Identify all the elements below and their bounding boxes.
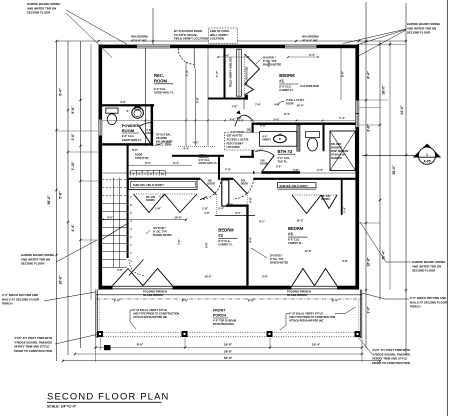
wall hall top xyxy=(172,155,224,157)
dimension line left vertical x75 xyxy=(80,41,82,348)
porch rail line xyxy=(96,294,362,296)
svg-text:LOCATION: LOCATION xyxy=(210,37,224,41)
svg-text:5′-8″: 5′-8″ xyxy=(262,275,269,279)
svg-text:8′-0″: 8′-0″ xyxy=(341,70,345,77)
bottom ticks xyxy=(62,346,381,361)
dim text 9'-8 right xyxy=(367,124,371,132)
witness line top x153 xyxy=(152,8,154,45)
left branch y152 xyxy=(68,151,98,153)
svg-text:FIELD VERIFY SHELVES: FIELD VERIFY SHELVES xyxy=(229,57,233,87)
interior vertical dimension texts xyxy=(177,60,347,248)
bottom dim line y354 xyxy=(75,353,362,355)
svg-text:4′-0″: 4′-0″ xyxy=(238,120,244,123)
note window top-left xyxy=(131,35,148,43)
svg-text:3/4 STUD *: 3/4 STUD * xyxy=(270,255,283,258)
note stud bedrm2 xyxy=(146,227,172,237)
svg-text:8′-2″: 8′-2″ xyxy=(132,148,139,152)
dimension ticks top xyxy=(55,40,407,42)
dimension ticks right xyxy=(365,99,407,291)
dim text 4'-0 closet xyxy=(236,116,242,120)
svg-text:BTH #2: BTH #2 xyxy=(278,149,293,154)
wall bath bottom xyxy=(240,156,254,158)
wall closet bedrm3 right xyxy=(341,180,343,215)
dim line hall y173 xyxy=(103,172,356,174)
note hardie right-mid xyxy=(360,222,446,273)
svg-text:5′-8″: 5′-8″ xyxy=(293,168,300,172)
svg-text:CARPET FL.: CARPET FL. xyxy=(288,242,303,245)
svg-text:10.8 VERS RCM: 10.8 VERS RCM xyxy=(300,85,319,88)
bottom dim line y360.7 xyxy=(63,360,380,362)
svg-text:SHELVES, FIELD VERIFY: SHELVES, FIELD VERIFY xyxy=(280,185,309,188)
porch deck dotted lines xyxy=(96,333,362,337)
dim line below doors xyxy=(204,195,255,216)
dim text 5'-8 b xyxy=(195,96,199,103)
svg-text:FOLDING FRENCH: FOLDING FRENCH xyxy=(143,290,167,294)
note post trim left xyxy=(14,334,99,353)
svg-text:DOOR: DOOR xyxy=(286,103,294,106)
svg-text:CARPET FL.: CARPET FL. xyxy=(218,244,233,247)
attic access dashed box xyxy=(225,133,263,151)
dimension line right vertical x366 xyxy=(365,2,367,348)
svg-text:14′-2″: 14′-2″ xyxy=(296,219,304,223)
half wall line x145.5 xyxy=(145,48,147,146)
svg-text:6′-1″: 6′-1″ xyxy=(259,220,266,224)
note hardie top-right xyxy=(343,22,441,56)
dim text 44'-0 right xyxy=(400,105,404,115)
svg-text:38′-8″: 38′-8″ xyxy=(224,349,233,353)
svg-text:ROOM: ROOM xyxy=(122,128,135,133)
svg-text:4′-6″: 4′-6″ xyxy=(120,100,127,104)
svg-text:ACCESS: LOCATE: ACCESS: LOCATE xyxy=(227,138,249,141)
dim text 5'-8 left xyxy=(59,191,63,199)
door attic access (dashed arc) xyxy=(178,48,194,68)
dim line bedrm2 y219.7 xyxy=(101,216,187,221)
powder sink xyxy=(132,107,144,119)
svg-text:8′-4″: 8′-4″ xyxy=(145,161,152,165)
svg-text:GET IN ATTIC: GET IN ATTIC xyxy=(227,135,243,138)
svg-text:CARPET FL.: CARPET FL. xyxy=(279,89,294,92)
svg-text:4′-6″: 4′-6″ xyxy=(274,103,281,107)
svg-text:9′-8″: 9′-8″ xyxy=(205,241,209,248)
exterior wall right xyxy=(355,45,359,290)
svg-text:5′-4″: 5′-4″ xyxy=(223,54,230,58)
closet hall bifold doors xyxy=(134,194,198,213)
stairs treads xyxy=(102,180,127,268)
svg-text:2′-10″: 2′-10″ xyxy=(71,161,75,170)
svg-text:SECOND FLOOR: SECOND FLOOR xyxy=(412,269,436,273)
svg-text:6″ AT BALAL VERIFY STYLE: 6″ AT BALAL VERIFY STYLE xyxy=(289,313,323,316)
exterior wall bottom xyxy=(99,286,360,290)
door bath double xyxy=(235,115,254,126)
door bedrm1 entry xyxy=(237,100,245,114)
door hall to bedrm3 xyxy=(233,179,254,200)
svg-text:9′-0″ CLG.: 9′-0″ CLG. xyxy=(278,156,291,160)
svg-text:5′-0″: 5′-0″ xyxy=(276,166,282,169)
porch post A xyxy=(97,331,103,337)
dim text 4'-4 left xyxy=(71,224,75,231)
svg-text:ROOM: ROOM xyxy=(154,78,168,83)
label hall xyxy=(199,154,219,166)
svg-text:4′-4″: 4′-4″ xyxy=(183,147,190,151)
svg-text:1′-4″: 1′-4″ xyxy=(343,206,347,213)
wall stairs right vertical xyxy=(127,145,129,258)
right branch y107 xyxy=(359,107,380,109)
wall closet1 bottom xyxy=(208,98,245,100)
bottom dim text 18'-8 xyxy=(224,343,233,347)
dim text 2'-10 left xyxy=(71,161,75,170)
dim line y120.5 xyxy=(102,120,355,122)
svg-text:10′-0″: 10′-0″ xyxy=(204,275,212,279)
section marker xyxy=(362,144,441,164)
dim text 38'-0 right xyxy=(392,165,396,175)
svg-text:4′-4″: 4′-4″ xyxy=(248,236,252,243)
svg-text:PRIOR TO CONSTRUCTION: PRIOR TO CONSTRUCTION xyxy=(372,361,410,365)
powder toilet xyxy=(106,108,118,125)
svg-text:7′-6″: 7′-6″ xyxy=(231,105,238,109)
svg-text:GOOD VERS FL.: GOOD VERS FL. xyxy=(122,138,143,142)
note window top-right xyxy=(302,35,319,43)
note door stop xyxy=(135,154,149,160)
door stairs to bedrm2 xyxy=(129,260,145,276)
witness x208 xyxy=(207,48,209,146)
svg-text:AIR: AIR xyxy=(278,133,282,136)
svg-text:SCALE: 1/4″=1′-0″: SCALE: 1/4″=1′-0″ xyxy=(47,405,77,409)
stairs tread numbers xyxy=(130,179,132,263)
svg-text:PR. 2X8 DOORS: PR. 2X8 DOORS xyxy=(246,66,249,85)
door powder room xyxy=(139,122,166,145)
svg-text:PORCH: PORCH xyxy=(2,302,12,306)
wall bedroom separation horizontal xyxy=(128,178,355,180)
svg-text:GOOD VINYL FL.: GOOD VINYL FL. xyxy=(199,162,219,165)
label folding doors left xyxy=(143,290,167,298)
svg-text:16′-8″: 16′-8″ xyxy=(59,275,63,285)
svg-text:PORCH: PORCH xyxy=(213,314,226,318)
svg-text:FRONT: FRONT xyxy=(213,309,226,313)
svg-text:3′-0″: 3′-0″ xyxy=(107,216,114,220)
svg-text:8′-4″: 8′-4″ xyxy=(59,88,63,96)
svg-text:4′-0″: 4′-0″ xyxy=(230,118,237,122)
left branch y181 xyxy=(81,180,99,182)
svg-text:AT 8′-0″ WC: AT 8′-0″ WC xyxy=(131,38,147,42)
svg-text:1′-6″: 1′-6″ xyxy=(204,211,210,215)
right top branch y44 xyxy=(359,43,406,45)
porch dash-dot line xyxy=(96,298,362,300)
witness x186 xyxy=(185,62,187,146)
svg-text:GLASS DOORS: GLASS DOORS xyxy=(287,293,307,297)
svg-text:#3: #3 xyxy=(288,232,293,237)
dimension line right vertical x388 xyxy=(389,41,391,290)
bath toilet xyxy=(306,132,320,152)
dimension line right vertical x406 xyxy=(405,3,407,355)
svg-text:5′-8″: 5′-8″ xyxy=(195,96,199,103)
svg-text:8″ OC. TYP.: 8″ OC. TYP. xyxy=(153,231,167,234)
svg-text:BASED NOTED: BASED NOTED xyxy=(153,234,171,237)
closet bedrm1 bifold doors xyxy=(245,54,260,95)
svg-text:BEDRM: BEDRM xyxy=(288,226,304,231)
svg-text:18′-8″: 18′-8″ xyxy=(224,343,233,347)
svg-text:7′-4″: 7′-4″ xyxy=(339,116,346,120)
note brick return left xyxy=(2,292,95,306)
svg-text:3′-6″: 3′-6″ xyxy=(71,133,75,140)
svg-text:3′-0″: 3′-0″ xyxy=(367,306,371,313)
wall bath plumbing xyxy=(297,125,300,151)
dim text 8'-4 left xyxy=(59,88,63,96)
svg-text:AND TYPE PRIOR TO CONSTRUCTION: AND TYPE PRIOR TO CONSTRUCTION xyxy=(289,316,335,319)
svg-text:DOOR: DOOR xyxy=(260,163,267,166)
note porch rail left xyxy=(130,309,179,329)
svg-text:14′-0″: 14′-0″ xyxy=(174,216,182,220)
closet bedrm3 shelves xyxy=(278,183,317,190)
svg-text:7′-6″: 7′-6″ xyxy=(177,238,181,245)
svg-text:BASED NOTED: BASED NOTED xyxy=(270,262,288,265)
dimension line right vertical x377 xyxy=(379,41,381,300)
svg-text:AND TYPE PRIOR TO CONSTRUCTION: AND TYPE PRIOR TO CONSTRUCTION xyxy=(133,313,179,316)
svg-text:38′-0″: 38′-0″ xyxy=(392,165,396,175)
right branch y223 xyxy=(359,222,380,224)
window right (bedrm1/bath) xyxy=(355,101,359,128)
svg-text:9′-4″: 9′-4″ xyxy=(114,299,121,303)
bath shower xyxy=(330,131,355,171)
svg-text:SECOND FLOOR: SECOND FLOOR xyxy=(21,262,45,266)
svg-text:9′-8″: 9′-8″ xyxy=(367,124,371,132)
porch witness mid xyxy=(185,338,270,348)
label powder room xyxy=(122,123,143,142)
dim text 18'-0 right xyxy=(382,85,386,95)
svg-text:DOOR: DOOR xyxy=(146,132,153,135)
label bedrm2 xyxy=(218,228,237,247)
note stud bedrm3 xyxy=(251,248,288,265)
wall bedrm1 entry jamb xyxy=(245,95,248,100)
dim text 16'-8 left xyxy=(59,275,63,285)
svg-text:3/4 STUD *: 3/4 STUD * xyxy=(153,227,166,230)
bottom dim text 38'-8 xyxy=(224,349,233,353)
right branch y125 xyxy=(359,124,380,126)
svg-text:SECOND FLOOR PLAN: SECOND FLOOR PLAN xyxy=(47,391,170,402)
svg-text:8′-0″: 8′-0″ xyxy=(137,343,144,347)
note brick return right xyxy=(362,293,448,309)
witness hall dotted xyxy=(178,146,215,148)
dimension ticks left xyxy=(55,99,81,256)
svg-text:LINE OF CONV.: LINE OF CONV. xyxy=(210,29,230,33)
door label 2'-8 top xyxy=(231,131,245,134)
svg-text:FOLDING FRENCH: FOLDING FRENCH xyxy=(287,290,311,294)
svg-text:5′-6″: 5′-6″ xyxy=(117,268,124,272)
svg-text:BEDRM: BEDRM xyxy=(279,73,295,78)
dim line hall y165 xyxy=(129,161,193,165)
svg-text:2′-4″: 2′-4″ xyxy=(165,141,172,145)
svg-text:18′-0″: 18′-0″ xyxy=(382,85,386,95)
svg-text:3/4 STUD *: 3/4 STUD * xyxy=(263,57,276,60)
svg-text:A-05: A-05 xyxy=(423,159,430,163)
stairs break line xyxy=(100,224,127,241)
svg-text:44′-0″: 44′-0″ xyxy=(400,105,404,115)
dim text 7'-6 closet xyxy=(231,105,238,109)
svg-text:4′-0″: 4′-0″ xyxy=(236,116,242,120)
svg-text:DOORS: DOORS xyxy=(321,198,330,201)
witness x195.5 xyxy=(195,69,197,147)
dim text 16'-8 right xyxy=(367,257,371,267)
svg-text:GLASS DOORS: GLASS DOORS xyxy=(143,293,163,297)
svg-text:REC.: REC. xyxy=(154,73,164,78)
label bedrm1 xyxy=(279,73,298,92)
svg-text:7′-0″: 7′-0″ xyxy=(225,168,232,172)
dim text 9'-4 a xyxy=(114,299,121,303)
dim text 7'-4 a xyxy=(185,69,189,76)
svg-text:2′-4″: 2′-4″ xyxy=(218,207,225,211)
dim text 20'-4 right xyxy=(382,250,386,260)
svg-text:STOP (TYP): STOP (TYP) xyxy=(135,157,149,160)
svg-text:1: 1 xyxy=(426,153,428,157)
svg-text:HALL: HALL xyxy=(199,154,208,158)
exterior wall top xyxy=(99,45,360,49)
svg-text:WALL VERIFY: WALL VERIFY xyxy=(210,33,228,37)
window top-left (rec room) xyxy=(137,45,170,49)
porch post D xyxy=(355,331,361,337)
closet hall shelves xyxy=(129,180,198,190)
window top-right (bedrm 1) xyxy=(285,45,317,49)
svg-text:3′-4″: 3′-4″ xyxy=(235,211,241,215)
closet bedrm1 shelves xyxy=(229,49,242,96)
porch post B xyxy=(182,331,188,337)
dimension line left vertical x57 xyxy=(56,41,58,361)
wall bath toilet right xyxy=(323,125,325,151)
svg-text:1′-6″: 1′-6″ xyxy=(155,207,162,211)
svg-text:AT 8′-0″ WC: AT 8′-0″ WC xyxy=(302,38,318,42)
note stud bedrm1 xyxy=(256,57,281,67)
svg-text:7′-4″: 7′-4″ xyxy=(185,69,189,76)
witness x341 xyxy=(341,48,345,100)
bath vanity xyxy=(260,132,297,147)
svg-text:14′-2″: 14′-2″ xyxy=(304,249,312,253)
svg-text:LOCATION: LOCATION xyxy=(227,146,240,149)
french doors bedrm2 xyxy=(113,269,173,290)
svg-text:8′-0″: 8′-0″ xyxy=(248,299,255,303)
svg-text:9′-4″: 9′-4″ xyxy=(284,112,291,116)
bottom dim line y347.5 xyxy=(96,347,363,349)
wall powder room bottom xyxy=(102,143,153,145)
title second floor plan xyxy=(47,391,170,409)
note attic access door xyxy=(174,29,208,41)
door label 2'-8 bedrm1 xyxy=(247,129,254,135)
svg-text:4′-4″: 4′-4″ xyxy=(71,224,75,231)
note hardie left-mid xyxy=(21,240,97,266)
wall powder room top xyxy=(102,104,154,106)
wall bath top xyxy=(253,123,355,125)
wall powder room right xyxy=(151,104,154,146)
svg-text:8″ OC. TYP.: 8″ OC. TYP. xyxy=(270,258,284,261)
svg-text:#2: #2 xyxy=(218,233,223,238)
svg-text:9′-8″: 9′-8″ xyxy=(248,196,252,203)
note window rcm xyxy=(300,85,319,88)
wall between bedrooms vertical jog xyxy=(222,180,249,286)
label bth2 xyxy=(278,149,296,163)
dimension line top horizontal y41 xyxy=(57,40,406,42)
dim text 38'-0 left xyxy=(47,195,51,205)
dim text 3'-0 right xyxy=(367,306,371,313)
svg-text:ATTACH PER BANP PER INC: ATTACH PER BANP PER INC xyxy=(133,316,168,319)
sheet border right xyxy=(446,0,448,416)
wall closet1 left vertical xyxy=(224,48,226,99)
bottom witness right xyxy=(361,338,363,362)
svg-text:FIELD VERIFY LOCATION: FIELD VERIFY LOCATION xyxy=(174,37,208,41)
note porch rail right xyxy=(280,307,356,330)
svg-text:8′-0″: 8′-0″ xyxy=(182,299,189,303)
door bath lower xyxy=(255,151,282,172)
stair riser cells xyxy=(131,170,166,176)
svg-text:BATR-PROOFING: BATR-PROOFING xyxy=(213,323,234,326)
svg-text:GOOD VINYL FL.: GOOD VINYL FL. xyxy=(154,92,174,95)
dim text 5'-0 bedrm1 xyxy=(273,118,280,122)
dim text 3'-6 left xyxy=(71,133,75,140)
label rec room xyxy=(154,73,174,95)
svg-text:9′-8″: 9′-8″ xyxy=(71,106,75,114)
french doors bedrm3 xyxy=(292,269,338,290)
svg-text:9′-0″ CLG.: 9′-0″ CLG. xyxy=(122,134,135,138)
label front porch xyxy=(213,309,236,327)
note line of conv wall xyxy=(209,28,238,43)
left branch y240 xyxy=(81,239,99,241)
svg-text:SECOND FLOOR: SECOND FLOOR xyxy=(407,31,431,35)
svg-text:5′-8″: 5′-8″ xyxy=(59,191,63,199)
svg-text:4′-1″: 4′-1″ xyxy=(193,141,200,145)
svg-text:BASED NOTED: BASED NOTED xyxy=(263,64,281,67)
svg-text:BEDRM: BEDRM xyxy=(218,228,234,233)
note half wall xyxy=(156,134,173,147)
porch post C xyxy=(267,331,273,337)
dim text 8'-0 a xyxy=(182,299,189,303)
stairs rail lines xyxy=(114,178,120,268)
svg-text:2′-4″: 2′-4″ xyxy=(317,168,324,172)
window left (powder) xyxy=(99,120,103,136)
svg-text:VANITY: VANITY xyxy=(262,139,271,142)
closet bedrm3 bifold doors xyxy=(292,195,337,214)
svg-text:8′-2″: 8′-2″ xyxy=(227,203,234,207)
bottom dim text 62'-8 xyxy=(224,356,233,360)
svg-text:SHELVES, FIELD VERIFY: SHELVES, FIELD VERIFY xyxy=(133,183,164,187)
svg-text:9′-4″: 9′-4″ xyxy=(173,161,180,165)
svg-text:6″ AT BALAL VERIFY STYLE: 6″ AT BALAL VERIFY STYLE xyxy=(133,309,167,312)
svg-text:PRIOR TO CONSTRUCTION: PRIOR TO CONSTRUCTION xyxy=(14,349,52,353)
bottom witness left xyxy=(96,338,101,362)
svg-text:6′-8″: 6′-8″ xyxy=(260,124,267,128)
svg-text:5′-0″: 5′-0″ xyxy=(273,118,280,122)
door label 2'-8 powder xyxy=(146,129,153,135)
svg-text:1′-6″: 1′-6″ xyxy=(159,195,166,199)
svg-text:62′-8″: 62′-8″ xyxy=(224,356,233,360)
porch left edge xyxy=(96,290,98,339)
svg-text:TILE FL.: TILE FL. xyxy=(278,159,289,163)
exterior wall left xyxy=(99,45,103,290)
dim text 8'-4 right xyxy=(367,71,371,79)
dim text 9'-4 b xyxy=(332,299,339,303)
wall bath left vertical xyxy=(252,123,254,158)
svg-text:PORCH: PORCH xyxy=(410,305,420,309)
dim text 7'-4 b xyxy=(215,70,219,77)
svg-text:18′-4″: 18′-4″ xyxy=(312,343,321,347)
porch right edge xyxy=(360,290,362,339)
svg-text:16′-8″: 16′-8″ xyxy=(367,257,371,267)
svg-text:#1: #1 xyxy=(279,79,284,84)
note post trim right xyxy=(357,336,410,365)
dimension line left vertical x91 xyxy=(90,44,92,300)
svg-text:DOOR: DOOR xyxy=(208,183,215,186)
dim text 9'-8 left xyxy=(71,106,75,114)
svg-text:9′-0″ CLG.: 9′-0″ CLG. xyxy=(154,88,166,91)
porch inner dotted verticals xyxy=(100,300,359,332)
label folding doors right xyxy=(287,290,311,298)
svg-text:7′-4″: 7′-4″ xyxy=(267,60,271,67)
dim text 8'-0 b xyxy=(248,299,255,303)
